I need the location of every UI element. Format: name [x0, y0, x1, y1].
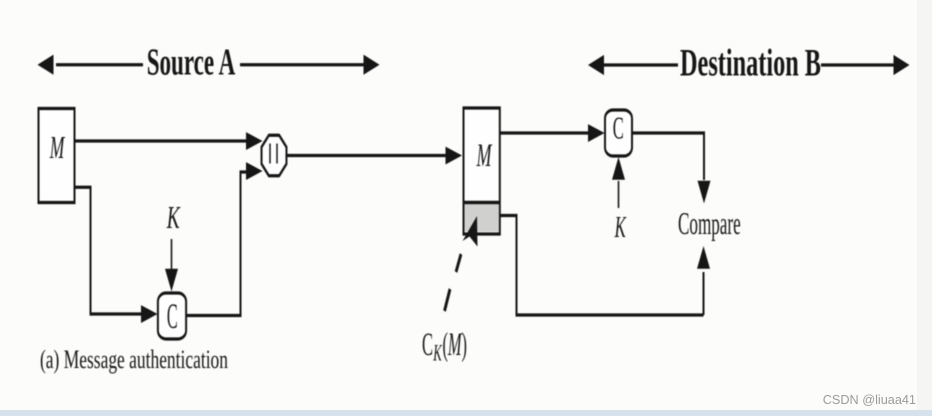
svg-text:(a) Message authentication: (a) Message authentication [40, 345, 228, 374]
svg-text:K: K [614, 209, 627, 244]
svg-text:M: M [49, 130, 66, 165]
svg-text:C: C [167, 295, 178, 336]
svg-text:Compare: Compare [678, 206, 741, 241]
svg-text:Source A: Source A [147, 41, 236, 83]
svg-text:M: M [476, 136, 493, 173]
svg-text:(M): (M) [443, 326, 468, 362]
svg-text:C: C [613, 111, 624, 146]
svg-text:Destination B: Destination B [680, 42, 821, 85]
svg-text:K: K [166, 200, 181, 235]
svg-text:K: K [433, 341, 443, 366]
svg-text:C: C [422, 326, 433, 362]
